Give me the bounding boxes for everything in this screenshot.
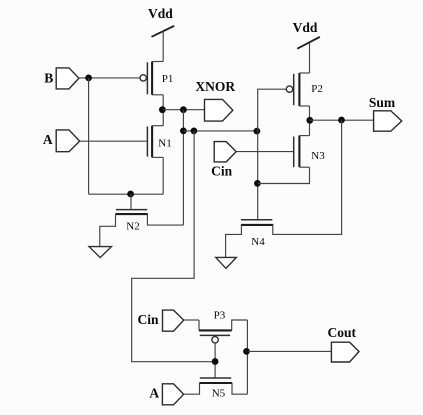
transistor N5: [199, 378, 232, 400]
wire x257 vertical P2 gate to N4 gate: [258, 89, 287, 219]
svg-text:P3: P3: [214, 310, 226, 322]
wire Cout node to port: [247, 350, 331, 352]
svg-text:Cin: Cin: [211, 163, 233, 178]
transistor N2: [115, 210, 147, 233]
wire Cin to P3 source: [184, 319, 199, 321]
wire source row y194: [89, 193, 164, 195]
wire XNOR node to port: [163, 109, 204, 111]
node B junction: [85, 75, 92, 82]
output port XNOR: [195, 79, 235, 121]
transistor P3: [199, 310, 247, 343]
wire B to P1 gate: [79, 77, 140, 79]
svg-text:N5: N5: [212, 388, 226, 400]
transistor N3: [294, 136, 326, 168]
transistor N1: [147, 126, 171, 158]
svg-text:Vdd: Vdd: [293, 20, 318, 35]
node Sum / N4 drain: [338, 117, 345, 124]
wire Vdd to P1 source: [162, 31, 164, 62]
wire P3/N5 gate stub: [214, 343, 216, 378]
svg-text:XNOR: XNOR: [195, 79, 235, 94]
wire Cin to N3 gate: [236, 151, 294, 153]
svg-text:N2: N2: [126, 221, 139, 233]
wire y131 XNOR net to P2 gate: [183, 130, 257, 132]
wire B vertical: [88, 78, 90, 194]
wire Sum node to port: [310, 119, 374, 121]
wire N2 gate stub: [130, 194, 132, 209]
output port Cout: [328, 325, 359, 362]
power symbol Vdd (right): [293, 20, 320, 49]
wire XNOR net vertical to N2 drain: [182, 110, 184, 225]
input port Cin (bottom): [137, 310, 183, 331]
node x257 y131: [254, 128, 261, 135]
transistor N4: [241, 220, 273, 248]
svg-text:N1: N1: [158, 137, 171, 149]
input port A (bottom): [149, 384, 183, 405]
svg-text:N4: N4: [251, 236, 265, 248]
svg-text:Cin: Cin: [137, 312, 159, 327]
svg-text:Sum: Sum: [369, 95, 396, 110]
input port B: [44, 68, 79, 89]
node Cout: [243, 348, 250, 355]
wire N5 drain lead: [232, 383, 247, 394]
node x257 y183: [254, 180, 261, 187]
wire A to N1 gate: [80, 140, 148, 142]
svg-text:P1: P1: [162, 73, 174, 85]
wire N2 source lead: [100, 214, 116, 247]
wire N3 source down and left: [258, 167, 310, 183]
wire N2 drain lead: [147, 214, 183, 225]
wire N5 source lead: [184, 383, 200, 394]
output port Sum: [369, 95, 402, 131]
input port A: [43, 130, 80, 152]
node XNOR tap: [180, 106, 187, 113]
wire N1 source down: [162, 157, 164, 194]
svg-text:Cout: Cout: [328, 325, 357, 340]
node Sum rail: [306, 117, 313, 124]
transistor P2: [286, 73, 323, 106]
svg-text:B: B: [44, 70, 53, 85]
node y131 tap 1: [180, 127, 187, 134]
svg-text:Vdd: Vdd: [148, 6, 173, 21]
wire N4 source lead: [226, 225, 242, 258]
wire XNOR net vertical to bottom stage: [132, 131, 215, 362]
wire Cout vertical: [246, 320, 248, 394]
svg-text:A: A: [149, 385, 159, 400]
node y131 tap 2: [191, 127, 198, 134]
svg-text:N3: N3: [311, 150, 325, 162]
ground (under N2): [89, 247, 111, 258]
node transmission gate control: [212, 358, 219, 365]
wire N4 drain lead to Sum: [273, 120, 342, 234]
wire P1 drain to XNOR node: [162, 95, 164, 126]
power symbol Vdd (left): [148, 6, 174, 37]
wire P2 drain to Sum node: [309, 106, 311, 136]
input port Cin: [211, 142, 236, 179]
node N2 gate junction: [127, 191, 134, 198]
svg-text:P2: P2: [311, 83, 323, 95]
ground (under N4): [216, 257, 237, 268]
wire Vdd to P2 source: [309, 43, 311, 73]
node XNOR rail junction: [159, 106, 166, 113]
svg-text:A: A: [43, 132, 53, 147]
transistor P1: [140, 62, 173, 95]
